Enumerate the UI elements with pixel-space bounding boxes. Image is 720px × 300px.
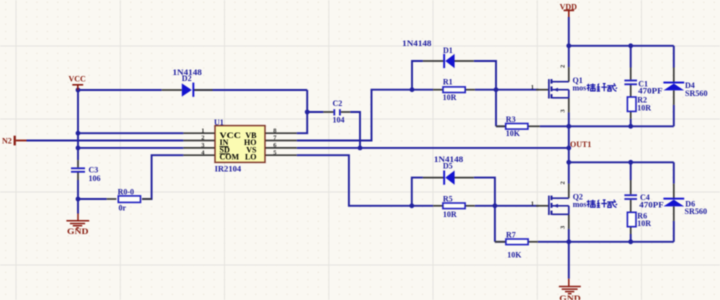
svg-text:R3: R3: [506, 115, 516, 124]
svg-text:COM: COM: [220, 153, 240, 162]
svg-text:IR2104: IR2104: [215, 164, 242, 173]
pin D1 anode: [455, 60, 474, 62]
wire D5 right: [474, 178, 495, 242]
resistor R0-0: [118, 187, 141, 212]
svg-text:R7: R7: [506, 230, 516, 239]
node pin3 tap: [76, 146, 81, 151]
pin C3 top: [77, 160, 79, 167]
pin U1-5: [265, 154, 297, 156]
svg-text:R0-0: R0-0: [118, 187, 134, 196]
ground GND2: [559, 279, 581, 294]
wire R3 to bus: [540, 125, 569, 127]
node R6 bottom: [628, 239, 633, 244]
svg-text:VDD: VDD: [560, 3, 578, 12]
node D1-R1 left: [410, 87, 415, 92]
node OUT1 VS: [566, 146, 571, 151]
node pin1 tap: [76, 131, 81, 136]
pins (black): [78, 61, 674, 242]
pin R6 bottom: [630, 227, 632, 234]
wire Q1 gate: [496, 89, 539, 91]
node D1-R1 right: [494, 87, 499, 92]
pin C2 right: [341, 111, 350, 113]
node OUT1 branch: [566, 160, 571, 165]
wire D5 branch: [412, 178, 423, 206]
pin R3 right: [528, 125, 540, 127]
svg-text:U1: U1: [214, 118, 224, 127]
wire GND1 stem: [77, 180, 79, 214]
pin C2 left: [323, 111, 333, 113]
svg-text:10R: 10R: [637, 219, 651, 228]
pin R1 right: [465, 89, 475, 91]
pin D5 anode: [455, 177, 474, 179]
svg-text:1N4148: 1N4148: [402, 39, 431, 48]
wire VCC column: [77, 90, 79, 160]
node C2-VS: [358, 146, 363, 151]
pin D2 anode: [162, 89, 182, 91]
wire Q2 source to bus: [568, 229, 570, 242]
ground GND1: [66, 214, 89, 228]
svg-text:C3: C3: [89, 165, 99, 174]
pin D6 top: [673, 184, 675, 198]
capacitor C4: [624, 193, 663, 209]
pin Q1 drain: [568, 67, 570, 82]
svg-text:D2: D2: [182, 74, 192, 83]
resistor R1: [443, 78, 466, 102]
wire pin1 row: [78, 132, 183, 134]
pin Q1 source: [568, 98, 570, 113]
pin U1-3: [183, 147, 215, 149]
diode D6: [663, 198, 707, 216]
svg-text:470PF: 470PF: [639, 200, 664, 209]
svg-text:D5: D5: [443, 161, 453, 170]
wire D4 top: [673, 46, 675, 68]
pin U1-4: [183, 154, 215, 156]
wire D6 top: [673, 162, 675, 183]
pin R7 left: [495, 241, 506, 243]
wire C1 top: [630, 46, 632, 68]
wire VB riser: [297, 90, 308, 133]
node D5-R5 left: [409, 203, 414, 208]
wire D1 right: [474, 61, 496, 126]
svg-text:GND: GND: [67, 227, 89, 236]
pin R1 left: [433, 89, 443, 91]
svg-text:106: 106: [89, 174, 101, 183]
resistor R5: [443, 194, 465, 219]
pin R2 bottom: [630, 111, 632, 118]
svg-text:GND: GND: [559, 294, 581, 300]
svg-text:SR560: SR560: [685, 207, 708, 216]
wire VS row: [297, 147, 569, 149]
svg-text:10R: 10R: [637, 104, 651, 113]
capacitor C2: [333, 99, 345, 125]
capacitor C3: [71, 165, 101, 183]
svg-text:N2: N2: [2, 136, 12, 145]
wire R5 right to gate: [475, 205, 539, 207]
pin R5 right: [465, 205, 475, 207]
node C2 tap: [305, 110, 310, 115]
node C4 top: [628, 160, 633, 165]
pin C1 bottom: [630, 85, 632, 97]
pin U1-6: [265, 147, 297, 149]
svg-text:1: 1: [531, 200, 534, 207]
svg-text:2: 2: [201, 135, 204, 142]
pin C4 top: [630, 180, 632, 194]
wire R3 row: [496, 125, 506, 127]
svg-text:SR560: SR560: [685, 89, 708, 98]
pin U1-7: [265, 140, 297, 142]
wire D2 row right: [194, 89, 307, 91]
node R0 gnd: [76, 197, 81, 202]
wire C2 right: [350, 112, 360, 148]
svg-text:mos: mos: [573, 200, 587, 209]
svg-text:C2: C2: [333, 99, 343, 108]
diode D5: [434, 155, 463, 185]
pin Q2 source: [568, 214, 570, 229]
svg-text:mos: mos: [573, 84, 587, 93]
wire OUT1 column: [568, 112, 570, 183]
pin U1-1: [183, 132, 215, 134]
pin Q1 gate: [536, 89, 548, 91]
wire OUT1 branch bus2: [569, 161, 674, 163]
pin D4 bottom: [673, 90, 675, 105]
wire GND bus: [538, 241, 674, 243]
wire R1 right to gate: [475, 89, 496, 91]
pin R0 right: [142, 198, 152, 200]
wire N2 row: [27, 140, 184, 142]
pin R5 left: [433, 205, 443, 207]
svg-text:0r: 0r: [119, 204, 127, 213]
pin Q2 gate: [536, 205, 548, 207]
svg-text:10K: 10K: [507, 250, 522, 259]
pin C1 top: [630, 68, 632, 80]
wire C2 tap: [307, 111, 323, 113]
wire R2 bottom: [630, 119, 632, 127]
pin D2 cathode: [194, 89, 213, 91]
svg-text:470PF: 470PF: [638, 86, 663, 95]
wire C4 top: [630, 162, 632, 180]
svg-text:2: 2: [560, 65, 567, 68]
wire D2 row left: [78, 89, 162, 91]
resistor R7: [506, 230, 528, 259]
wire R6 bottom: [630, 234, 632, 242]
wire R1 left: [412, 89, 433, 91]
diode D1: [402, 39, 454, 68]
transistor Q1: [531, 65, 617, 113]
svg-text:VCC: VCC: [69, 75, 87, 84]
node VDD bus: [566, 43, 571, 48]
svg-text:1: 1: [531, 84, 534, 91]
wire pin3 row: [78, 147, 183, 149]
svg-text:OUT1: OUT1: [570, 140, 591, 149]
power VDD: [564, 10, 575, 17]
wire R5 left: [412, 205, 433, 207]
node D5-R5 right: [493, 203, 498, 208]
pin R7 right: [528, 241, 538, 243]
wire D4 bottom: [673, 105, 675, 126]
pin R0 left: [107, 198, 117, 200]
svg-text:D1: D1: [443, 46, 453, 55]
wire VDD bus: [569, 45, 674, 47]
pin D6 bottom: [673, 206, 675, 221]
pin D4 top: [673, 68, 675, 83]
wire D1 branch: [412, 61, 423, 90]
wire COM routing: [142, 155, 183, 199]
wire R7 row: [495, 241, 506, 243]
pin U1-2: [183, 140, 215, 142]
svg-text:R5: R5: [443, 194, 453, 203]
wire R0-0 left lead: [78, 198, 107, 200]
svg-text:10K: 10K: [506, 129, 521, 138]
node OUT1 R3: [566, 124, 571, 129]
svg-text:10R: 10R: [443, 93, 457, 102]
pin C4 bottom: [630, 200, 632, 213]
wire HO routing: [297, 90, 412, 141]
svg-text:104: 104: [333, 116, 345, 125]
wire GND2 stem: [568, 242, 570, 279]
node R2 bottom: [628, 124, 633, 129]
pin U1-8: [265, 132, 297, 134]
svg-text:1: 1: [201, 127, 204, 134]
pin D1 cathode: [423, 60, 444, 62]
node C1 top: [628, 43, 633, 48]
diode D4: [663, 81, 707, 98]
svg-text:LO: LO: [245, 153, 257, 162]
capacitor C1: [624, 79, 662, 95]
diode D2: [173, 68, 202, 97]
IC U1 IR2104: [201, 118, 277, 174]
node VCC-D2: [76, 88, 81, 93]
resistor R6: [627, 211, 651, 228]
pin R3 left: [496, 125, 506, 127]
svg-text:10R: 10R: [443, 210, 457, 219]
svg-text:2: 2: [560, 181, 567, 184]
port N2: [2, 136, 27, 146]
svg-text:R1: R1: [443, 78, 453, 87]
pin D5 cathode: [423, 177, 444, 179]
pin C3 bottom: [77, 173, 79, 181]
wire D6 bottom: [673, 221, 675, 242]
wire VDD stem: [568, 17, 570, 67]
wire OUT1 bottom bus: [569, 125, 674, 127]
power VCC: [72, 85, 83, 90]
wire LO routing: [297, 155, 412, 206]
pin Q2 drain: [568, 184, 570, 199]
resistor R2: [627, 96, 651, 113]
node GND bus: [566, 239, 571, 244]
resistor R3: [506, 115, 528, 138]
transistor Q2: [531, 181, 617, 229]
